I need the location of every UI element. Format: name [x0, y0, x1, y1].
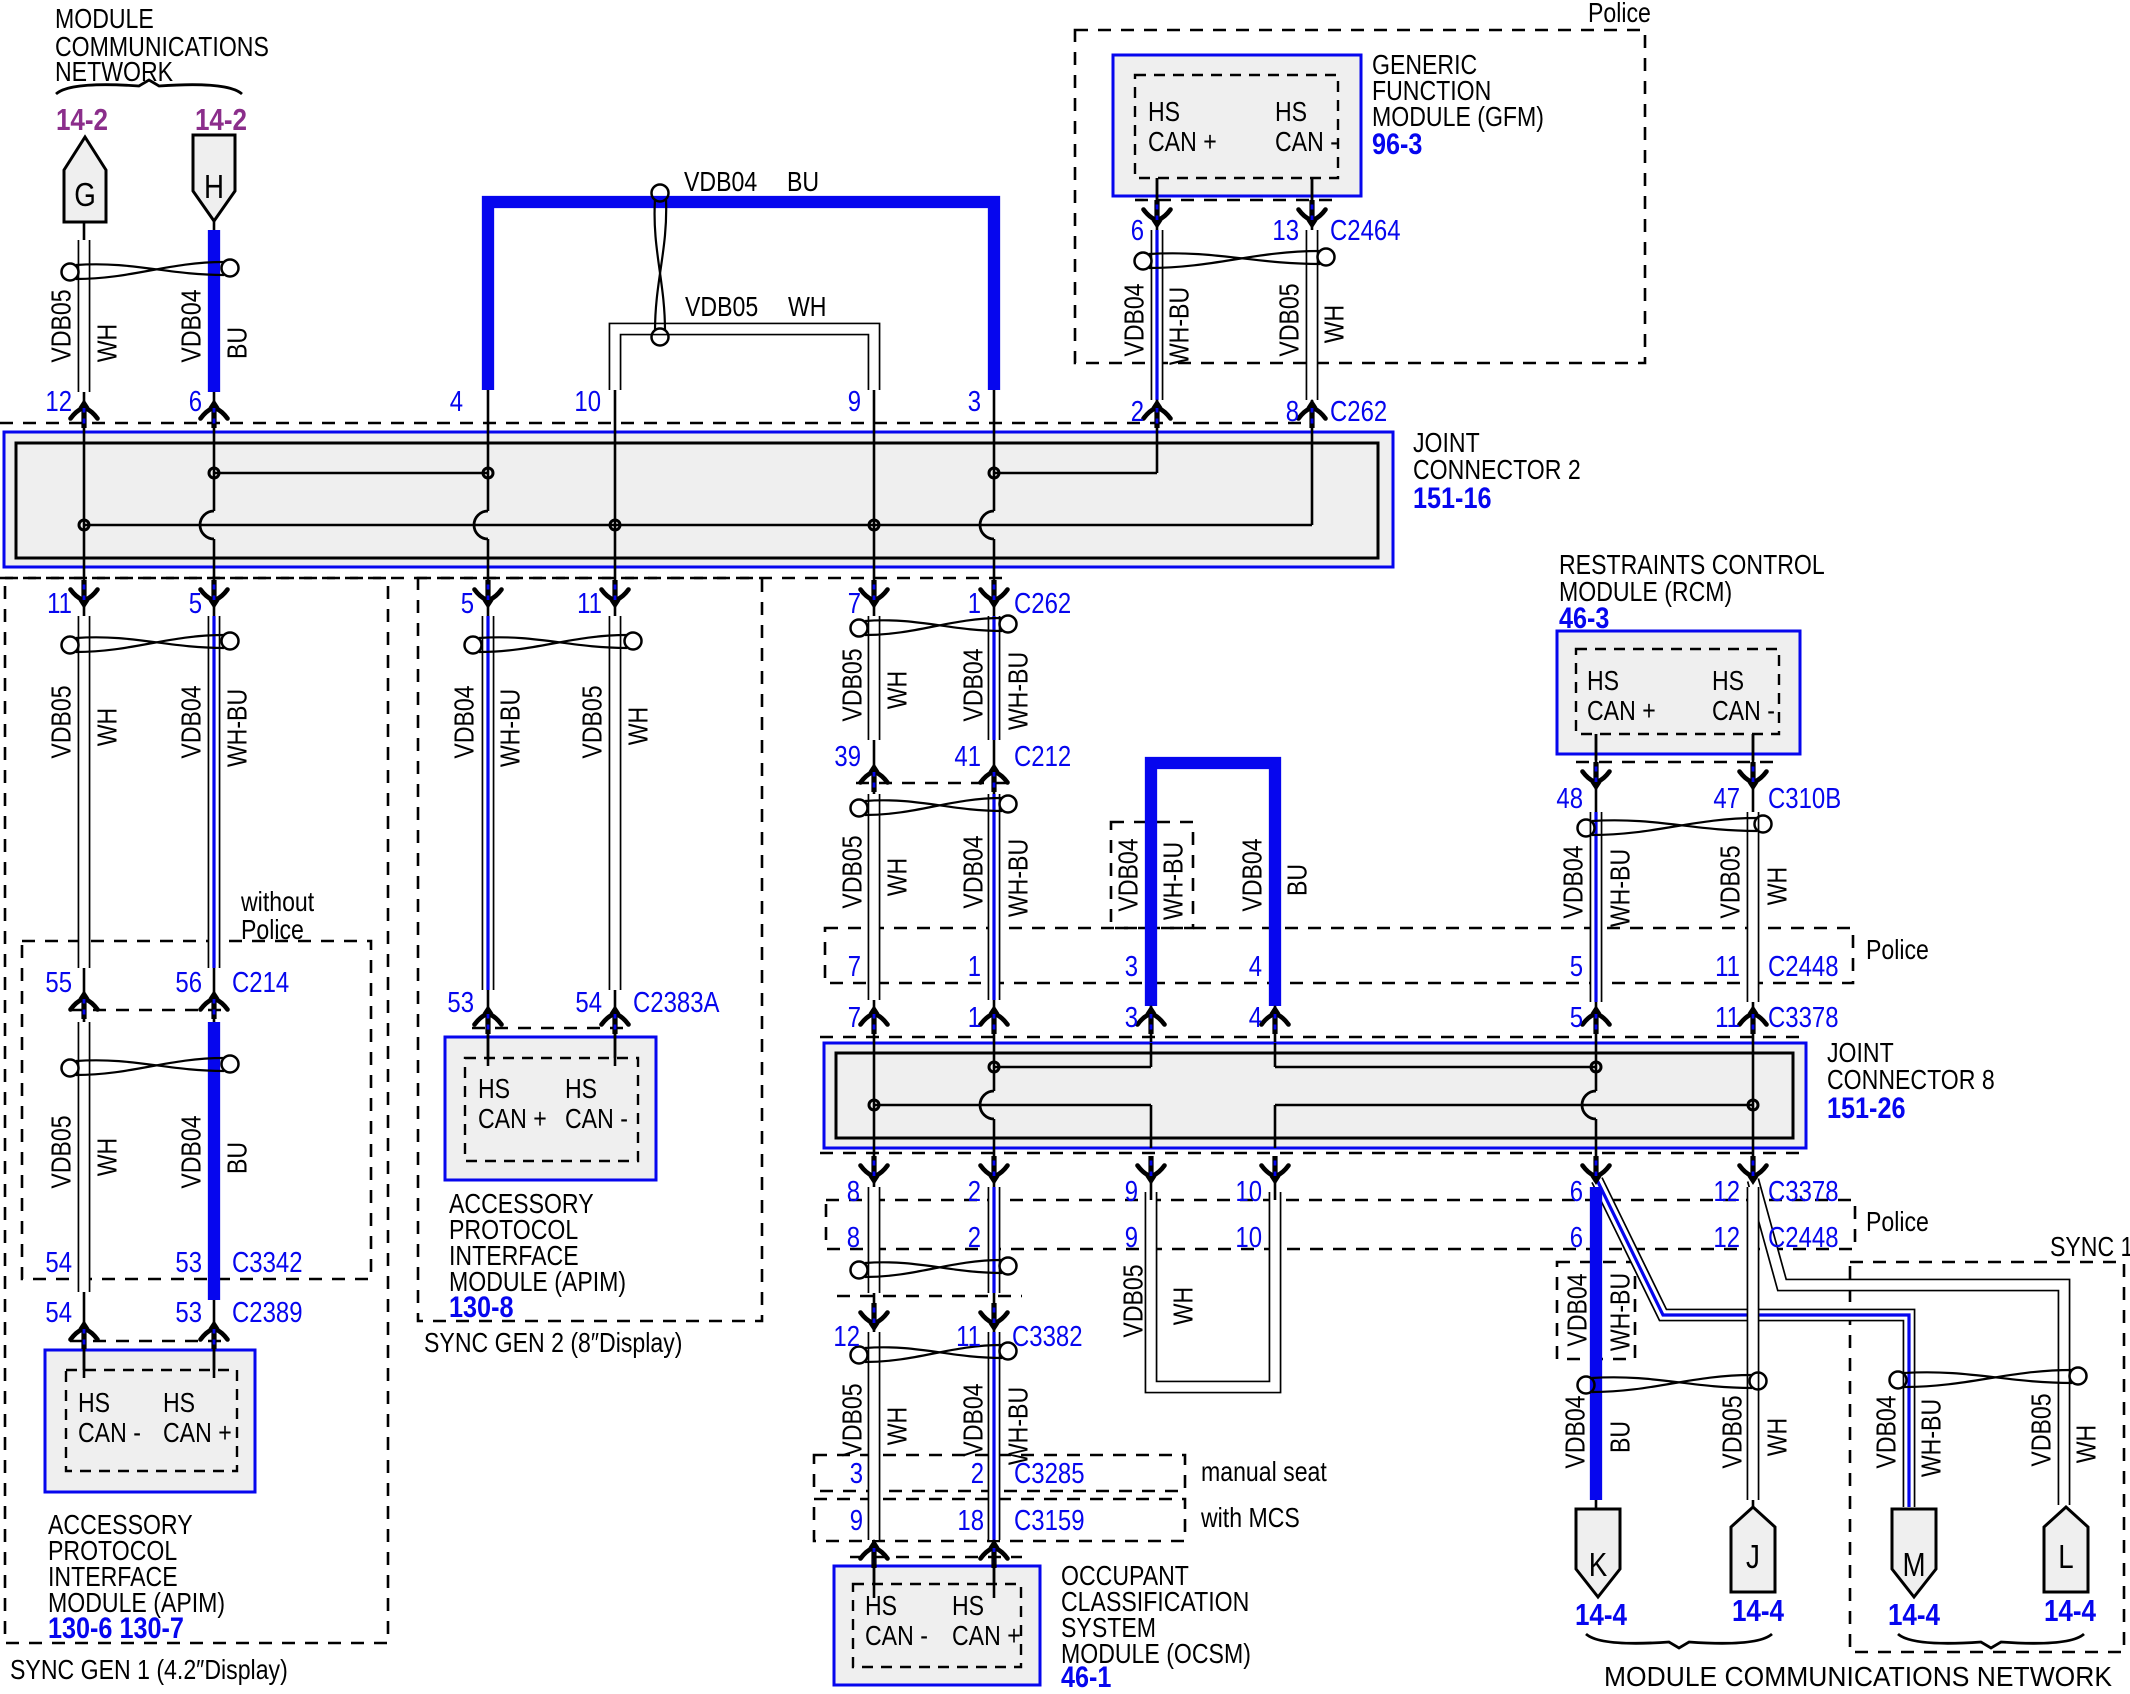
svg-text:8: 8 [847, 1176, 860, 1208]
svg-text:53: 53 [175, 1247, 202, 1279]
twisted pair 39-41 C212 [851, 796, 1017, 817]
svg-text:53: 53 [175, 1297, 202, 1329]
band WH RCM right [1747, 812, 1760, 1002]
svg-text:2: 2 [968, 1222, 981, 1254]
svg-text:SYNC 1: SYNC 1 [2050, 1231, 2130, 1262]
dashed connector row below JC8 [820, 1152, 1806, 1155]
svg-text:C3382: C3382 [1012, 1321, 1083, 1353]
svg-text:11: 11 [47, 588, 72, 620]
connector H [193, 135, 235, 221]
twisted pair M-L [1890, 1368, 2087, 1389]
svg-text:6: 6 [1570, 1222, 1583, 1254]
svg-text:5: 5 [461, 588, 474, 620]
svg-text:C262: C262 [1014, 588, 1071, 620]
svg-text:C212: C212 [1014, 741, 1071, 773]
svg-text:6: 6 [189, 386, 202, 418]
arrows C3382 [861, 1303, 888, 1332]
JC8 upper bus 3-1 [1150, 1043, 1153, 1067]
svg-text:VDB04: VDB04 [958, 648, 989, 721]
arrows C214 [71, 990, 98, 1019]
svg-text:VDB04: VDB04 [1113, 838, 1144, 911]
wire 8-12 VDB05 WH [873, 1160, 876, 1330]
svg-text:J: J [1746, 1538, 1760, 1575]
svg-text:Police: Police [1866, 1206, 1929, 1237]
dashed connector row above JC2 [0, 422, 1308, 425]
svg-text:BU: BU [1282, 864, 1313, 896]
wire 5-53 VDB04 WH-BU [487, 604, 490, 1058]
band WH-BU 41-1 [988, 794, 1001, 1000]
svg-text:10: 10 [574, 386, 601, 418]
svg-text:CAN +: CAN + [952, 1620, 1021, 1651]
twisted pair sync2 [465, 633, 642, 654]
JC2 upper bus wire 3-2 [994, 472, 1157, 475]
svg-text:2: 2 [971, 1458, 984, 1490]
svg-text:14-4: 14-4 [2044, 1593, 2097, 1628]
wire 11-2-18 VDB04 WH-BU [993, 1330, 996, 1584]
svg-text:4: 4 [1249, 951, 1262, 983]
arrows into JC8 top [861, 1005, 888, 1034]
wire pin 10/11 vertical [614, 390, 617, 604]
band WH GFM right [1306, 230, 1319, 400]
wire VDB04 BU top loop [488, 202, 994, 390]
svg-text:9: 9 [1125, 1176, 1138, 1208]
svg-text:C310B: C310B [1768, 783, 1841, 815]
wire 12-J VDB05 WH [1752, 1160, 1755, 1509]
svg-text:C2448: C2448 [1768, 1222, 1839, 1254]
svg-text:C2448: C2448 [1768, 951, 1839, 983]
svg-text:with MCS: with MCS [1200, 1502, 1300, 1533]
wire 11-55 VDB05 WH [83, 604, 86, 999]
svg-text:VDB05: VDB05 [1118, 1264, 1149, 1337]
small dashed box VDB04 WH-BU at blue loop [1111, 822, 1193, 928]
svg-text:CAN -: CAN - [1275, 126, 1338, 157]
svg-text:54: 54 [575, 987, 602, 1019]
APIM module box (SYNC GEN 1) [45, 1350, 255, 1492]
svg-text:C262: C262 [1330, 396, 1387, 428]
svg-text:VDB05: VDB05 [577, 685, 608, 758]
svg-text:WH-BU: WH-BU [1003, 1387, 1034, 1465]
wire VDB05 WH top loop [615, 329, 874, 390]
svg-text:1: 1 [968, 1002, 981, 1034]
svg-text:VDB04: VDB04 [1558, 845, 1589, 918]
svg-text:CAN -: CAN - [565, 1103, 628, 1134]
stub wires OCSM [873, 1552, 876, 1598]
svg-text:CAN -: CAN - [78, 1417, 141, 1448]
svg-text:9: 9 [848, 386, 861, 418]
svg-text:6: 6 [1131, 215, 1144, 247]
svg-text:C3159: C3159 [1014, 1505, 1085, 1537]
svg-text:7: 7 [848, 951, 861, 983]
svg-text:VDB04: VDB04 [1237, 838, 1268, 911]
svg-text:2: 2 [968, 1176, 981, 1208]
svg-text:WH: WH [2071, 1425, 2102, 1464]
band WH-BU RCM left [1590, 812, 1603, 1002]
svg-text:CAN +: CAN + [1148, 126, 1217, 157]
svg-text:4: 4 [450, 386, 463, 418]
svg-text:CAN -: CAN - [1712, 695, 1775, 726]
svg-text:130-8: 130-8 [449, 1291, 514, 1324]
brace module communications network top [56, 80, 242, 94]
svg-text:WH-BU: WH-BU [1158, 842, 1189, 920]
svg-text:VDB04: VDB04 [176, 1115, 207, 1188]
connector row dashed C310B [1576, 761, 1780, 764]
svg-text:HS: HS [478, 1073, 510, 1104]
with MCS dashed box [814, 1499, 1185, 1541]
band WH-BU 2-11 below JC8 [988, 1187, 1001, 1293]
svg-text:VDB05: VDB05 [46, 289, 77, 362]
svg-text:WH-BU: WH-BU [1164, 287, 1195, 365]
JC8 vertical 5-6 [1595, 1042, 1598, 1091]
svg-text:CAN +: CAN + [1587, 695, 1656, 726]
twisted pair 7-1 C262 [851, 616, 1017, 637]
joint connector 8 box [824, 1043, 1806, 1148]
svg-text:M: M [1902, 1546, 1925, 1583]
JC8 vertical 7-8 [873, 1042, 876, 1160]
svg-text:14-4: 14-4 [1575, 1597, 1628, 1632]
svg-text:HS: HS [565, 1073, 597, 1104]
connector row dashed C214 [70, 1009, 222, 1012]
svg-text:56: 56 [175, 967, 202, 999]
stub wires APIM2 [487, 1034, 490, 1066]
svg-text:18: 18 [957, 1505, 984, 1537]
arrows below JC2 [71, 580, 98, 609]
band WH 11-55 [78, 616, 91, 968]
svg-text:Police: Police [241, 914, 304, 945]
wire 5-56 VDB04 WH-BU [213, 604, 216, 999]
svg-text:WH: WH [1762, 1418, 1793, 1457]
svg-text:10: 10 [1235, 1222, 1262, 1254]
svg-text:HS: HS [865, 1590, 897, 1621]
svg-text:G: G [74, 176, 96, 213]
wire 6-M VDB04 WH-BU [1597, 1180, 1909, 1507]
twisted pair crossing top loops [652, 185, 669, 346]
band WH SYNC2 right [609, 616, 622, 990]
svg-text:3: 3 [1125, 1002, 1138, 1034]
arrows C2389 [71, 1320, 98, 1349]
svg-text:C2389: C2389 [232, 1297, 303, 1329]
band BU 56-53 [208, 1022, 220, 1300]
svg-text:HS: HS [1148, 96, 1180, 127]
JC8 lower bus 10-11 [1274, 1105, 1277, 1148]
svg-text:WH: WH [92, 324, 123, 363]
wire VDB04 BU mid loop band [1151, 763, 1275, 1006]
wire pin 3/1 vertical [993, 390, 996, 511]
svg-text:WH: WH [882, 671, 913, 710]
svg-text:VDB05: VDB05 [1274, 283, 1305, 356]
svg-text:HS: HS [1587, 665, 1619, 696]
svg-text:CAN +: CAN + [163, 1417, 232, 1448]
svg-text:Police: Police [1588, 0, 1651, 28]
Police dashed row box lower (C2448) [826, 1200, 1855, 1249]
manual seat dashed box [814, 1455, 1185, 1491]
svg-text:SYNC GEN 2 (8″Display): SYNC GEN 2 (8″Display) [424, 1327, 683, 1358]
svg-text:NETWORK: NETWORK [55, 56, 174, 87]
svg-text:2: 2 [1131, 396, 1144, 428]
svg-text:BU: BU [787, 166, 819, 197]
svg-text:8: 8 [1286, 396, 1299, 428]
svg-text:L: L [2058, 1538, 2073, 1575]
svg-text:VDB05: VDB05 [837, 1383, 868, 1456]
svg-text:7: 7 [848, 1002, 861, 1034]
APIM module box (SYNC GEN 2) [445, 1037, 656, 1180]
connector row dashed C2389 [70, 1340, 222, 1343]
svg-text:C3378: C3378 [1768, 1002, 1839, 1034]
svg-text:47: 47 [1713, 783, 1740, 815]
svg-text:WH: WH [1168, 1287, 1199, 1326]
wire pin 9/7 vertical [873, 390, 876, 604]
svg-text:VDB05: VDB05 [46, 685, 77, 758]
wire 11-54 VDB05 WH [614, 604, 617, 1058]
twisted pair G-H [62, 260, 239, 281]
generic function module GFM box [1113, 55, 1361, 196]
arrows C2383A [475, 1005, 502, 1034]
svg-text:14-2: 14-2 [56, 102, 108, 137]
svg-text:WH: WH [623, 707, 654, 746]
connector row dashed C2464 [1135, 199, 1340, 202]
svg-text:without: without [240, 886, 314, 917]
svg-text:MODULE: MODULE [55, 3, 154, 34]
svg-text:HS: HS [1275, 96, 1307, 127]
svg-text:9: 9 [850, 1505, 863, 1537]
svg-text:3: 3 [1125, 951, 1138, 983]
svg-text:55: 55 [45, 967, 72, 999]
twisted pair 11-5 sync1 [62, 633, 239, 654]
svg-text:VDB04: VDB04 [449, 685, 480, 758]
wire pin 4/5 vertical [487, 390, 490, 511]
svg-text:BU: BU [222, 1142, 253, 1174]
svg-text:VDB05: VDB05 [837, 835, 868, 908]
svg-text:13: 13 [1272, 215, 1299, 247]
svg-text:130-6 130-7: 130-6 130-7 [48, 1612, 184, 1645]
joint connector 2 box [4, 432, 1393, 567]
connector L [2044, 1507, 2088, 1592]
SYNC GEN 2 dashed box [418, 578, 762, 1321]
svg-text:96-3: 96-3 [1372, 128, 1422, 161]
svg-text:HS: HS [952, 1590, 984, 1621]
svg-text:WH-BU: WH-BU [1605, 849, 1636, 927]
svg-text:CAN +: CAN + [478, 1103, 547, 1134]
wire 6-K VDB04 BU [1595, 1160, 1598, 1509]
band WH-BU 5-56 [208, 616, 221, 968]
arrows C212 [861, 763, 888, 792]
svg-text:14-2: 14-2 [195, 102, 247, 137]
connector G [64, 137, 106, 222]
svg-text:12: 12 [833, 1321, 860, 1353]
wire 9 stub [1150, 1160, 1153, 1200]
svg-text:VDB04: VDB04 [176, 289, 207, 362]
connector M [1892, 1509, 1936, 1597]
svg-text:WH: WH [92, 708, 123, 747]
svg-text:VDB05: VDB05 [685, 291, 758, 322]
band WH-BU 11-2-18 [988, 1332, 1001, 1540]
svg-text:1: 1 [968, 951, 981, 983]
svg-text:WH-BU: WH-BU [1916, 1399, 1947, 1477]
svg-text:5: 5 [1570, 951, 1583, 983]
svg-text:C2464: C2464 [1330, 215, 1401, 247]
restraints control module RCM box [1557, 631, 1800, 754]
JC2 junction dots [209, 468, 219, 478]
svg-text:HS: HS [78, 1387, 110, 1418]
wire H to JC2 pin 6/5 vertical [213, 221, 216, 511]
SYNC GEN 1 dashed box [5, 578, 388, 1643]
dashed connector row above JC8 [820, 1036, 1806, 1039]
svg-text:VDB05: VDB05 [46, 1115, 77, 1188]
wire 9-10 VDB05 WH loop below JC8 [1151, 1192, 1275, 1387]
svg-text:41: 41 [954, 741, 981, 773]
stub wires RCM [1595, 734, 1598, 760]
twisted pair 12-11 C3382 [851, 1343, 1017, 1364]
stub wires GFM [1156, 178, 1159, 200]
band WH 8-12 below JC8 [868, 1187, 881, 1293]
svg-text:CAN -: CAN - [865, 1620, 928, 1651]
svg-text:Police: Police [1866, 934, 1929, 965]
arrows into JC2 top [71, 399, 98, 428]
band BU 6-K [1590, 1187, 1602, 1500]
Police dashed row box middle (C2448) [825, 928, 1853, 983]
svg-text:manual seat: manual seat [1201, 1456, 1327, 1487]
band WH 39-7 [868, 794, 881, 1000]
wire 41-1 VDB04 WH-BU [993, 772, 996, 1042]
connector row dashed C2383A [472, 1027, 630, 1030]
svg-text:11: 11 [1715, 1002, 1740, 1034]
svg-text:VDB04: VDB04 [1871, 1395, 1902, 1468]
svg-text:MODULE COMMUNICATIONS NETWORK: MODULE COMMUNICATIONS NETWORK [1604, 1661, 2113, 1689]
svg-text:12: 12 [45, 386, 72, 418]
svg-text:10: 10 [1235, 1176, 1262, 1208]
svg-text:WH: WH [882, 1407, 913, 1446]
svg-text:VDB04: VDB04 [958, 1383, 989, 1456]
svg-text:WH-BU: WH-BU [1605, 1273, 1636, 1351]
svg-text:VDB04: VDB04 [958, 835, 989, 908]
band WH 12-3-9 [868, 1332, 881, 1540]
wire 56-53 VDB04 BU [213, 999, 216, 1370]
svg-text:VDB05: VDB05 [1715, 845, 1746, 918]
svg-text:CONNECTOR 2: CONNECTOR 2 [1413, 454, 1581, 485]
svg-text:SYNC GEN 1 (4.2″Display): SYNC GEN 1 (4.2″Display) [10, 1654, 288, 1685]
connector J [1731, 1507, 1775, 1592]
wire GFM pin 2 vertical [1156, 178, 1159, 473]
svg-text:4: 4 [1249, 1002, 1262, 1034]
svg-text:C214: C214 [232, 967, 289, 999]
band WH 7-39 [868, 616, 881, 740]
wire GFM pin 8 vertical [1311, 178, 1314, 525]
wire 2-11 VDB04 WH-BU [993, 1160, 996, 1330]
wire 12-3-9 VDB05 WH [873, 1330, 876, 1584]
dashed connector row below JC2 [0, 577, 1005, 580]
JC8 lower bus 7-9 [874, 1104, 1151, 1107]
svg-text:11: 11 [577, 588, 602, 620]
band WH 55-54 [78, 1022, 91, 1292]
JC8 upper bus 4-5 [1274, 1043, 1277, 1067]
svg-text:7: 7 [848, 588, 861, 620]
band WH 12-J [1747, 1187, 1760, 1500]
wire G to JC2 pin 12/11 vertical [83, 222, 86, 604]
svg-text:5: 5 [1570, 1002, 1583, 1034]
svg-text:BU: BU [1605, 1421, 1636, 1453]
brace M-L [1898, 1634, 2084, 1648]
band WH-BU SYNC2 left [482, 616, 495, 990]
svg-text:8: 8 [847, 1222, 860, 1254]
svg-text:9: 9 [1125, 1222, 1138, 1254]
wire RCM 48 VDB04 WH-BU [1595, 734, 1598, 1042]
svg-text:C2383A: C2383A [633, 987, 720, 1019]
svg-text:VDB04: VDB04 [1119, 283, 1150, 356]
svg-text:VDB05: VDB05 [2026, 1393, 2057, 1466]
svg-text:WH: WH [1762, 867, 1793, 906]
svg-text:46-3: 46-3 [1559, 602, 1609, 635]
twisted pair 55-56 sync1 [62, 1056, 239, 1077]
arrows below JC8 [861, 1156, 888, 1185]
connector row dashed C212 [856, 782, 1008, 785]
connector row dashed C3382 [837, 1295, 1022, 1298]
JC8 vertical 11-12 [1752, 1042, 1755, 1160]
wire 1-41 VDB04 WH-BU [993, 604, 996, 772]
svg-text:WH-BU: WH-BU [222, 689, 253, 767]
svg-text:WH: WH [882, 858, 913, 897]
small dashed box VDB04 WH-BU at pin 6 [1557, 1262, 1635, 1359]
svg-text:K: K [1589, 1546, 1608, 1583]
JC2 lower bus wire [84, 524, 1312, 527]
brace K-J [1586, 1634, 1772, 1648]
svg-text:6: 6 [1570, 1176, 1583, 1208]
wire 7-39 VDB05 WH [873, 604, 876, 772]
svg-text:WH-BU: WH-BU [1003, 839, 1034, 917]
svg-text:HS: HS [163, 1387, 195, 1418]
svg-text:WH: WH [92, 1138, 123, 1177]
svg-text:CONNECTOR 8: CONNECTOR 8 [1827, 1064, 1995, 1095]
JC2 upper bus wire 6-4 [214, 472, 488, 475]
wire VDB04 BU mid loop [1150, 762, 1153, 1042]
Police dashed box top right [1075, 30, 1645, 363]
svg-text:WH-BU: WH-BU [1003, 652, 1034, 730]
band WH-BU 1-41 [988, 616, 1001, 740]
svg-text:VDB04: VDB04 [1560, 1395, 1591, 1468]
stub wires APIM1 [83, 1348, 86, 1378]
svg-text:VDB04: VDB04 [1562, 1273, 1593, 1346]
arrows RCM C310B [1583, 762, 1610, 791]
SYNC 1 dashed box [1850, 1262, 2124, 1652]
svg-text:5: 5 [189, 588, 202, 620]
wire 10 stub [1274, 1160, 1277, 1200]
svg-text:46-1: 46-1 [1061, 1661, 1111, 1689]
svg-text:151-16: 151-16 [1413, 482, 1492, 515]
twisted pair RCM [1578, 816, 1772, 837]
svg-text:53: 53 [447, 987, 474, 1019]
svg-text:VDB05: VDB05 [1717, 1395, 1748, 1468]
twisted pair GFM [1135, 249, 1335, 270]
svg-text:14-4: 14-4 [1888, 1597, 1941, 1632]
arrows GFM into JC2 [1144, 399, 1171, 428]
band WH wire G [78, 240, 91, 392]
svg-text:WH: WH [788, 291, 827, 322]
band BU wire H [208, 230, 220, 392]
svg-text:3: 3 [968, 386, 981, 418]
wire 55-54 VDB05 WH [83, 999, 86, 1370]
svg-text:H: H [204, 168, 224, 205]
svg-text:C3378: C3378 [1768, 1176, 1839, 1208]
svg-text:14-4: 14-4 [1732, 1593, 1785, 1628]
svg-text:C3342: C3342 [232, 1247, 303, 1279]
occupant classification system module OCSM box [834, 1566, 1040, 1685]
svg-text:48: 48 [1556, 783, 1583, 815]
svg-text:VDB05: VDB05 [837, 648, 868, 721]
twisted pair K-J [1578, 1373, 1767, 1394]
svg-text:151-26: 151-26 [1827, 1092, 1906, 1125]
svg-text:BU: BU [222, 327, 253, 359]
JC8 vertical 1-2 [993, 1042, 996, 1091]
connector row dashed OCSM [850, 1556, 1022, 1559]
band WH-BU GFM left [1151, 230, 1164, 400]
